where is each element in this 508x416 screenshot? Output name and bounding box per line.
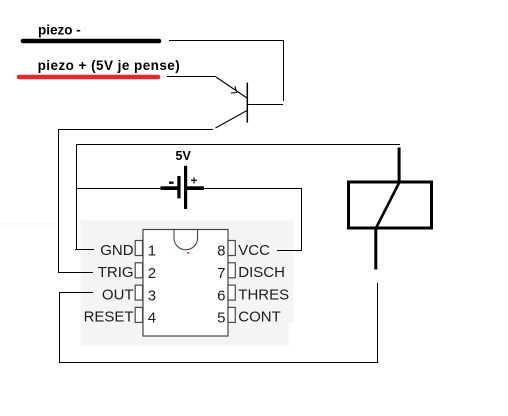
svg-text:piezo -: piezo - <box>38 23 81 38</box>
wire: TRIG stub <box>58 272 93 274</box>
IC U1 555 body <box>143 230 228 337</box>
base bar <box>246 83 248 123</box>
wire: bottom rail <box>59 362 379 364</box>
battery left thick lead <box>161 186 179 190</box>
faint eraser artifact left edge <box>0 222 57 227</box>
pin 1 box <box>135 241 142 256</box>
wire: piezo- to collector riser <box>169 40 284 42</box>
piezo negative lead (thick black bar) <box>23 39 159 44</box>
svg-text:CONT: CONT <box>238 309 280 326</box>
wire: GND stub <box>75 249 94 251</box>
wire: emitter to left rail <box>59 129 213 131</box>
svg-text:TRIG: TRIG <box>98 264 134 281</box>
wire: collector riser vertical <box>283 40 285 101</box>
svg-text:DISCH: DISCH <box>238 264 285 281</box>
IC U1 gray backdrop lower <box>81 323 289 346</box>
svg-text:+: + <box>191 174 198 188</box>
transistor Q1 <box>216 77 284 128</box>
pin 5 box <box>228 307 235 322</box>
emitter diagonal lead <box>216 111 248 129</box>
svg-text:6: 6 <box>217 287 225 304</box>
svg-text:5V: 5V <box>176 149 192 163</box>
relay body rectangle <box>349 182 432 228</box>
svg-text:GND: GND <box>100 242 134 259</box>
relay bottom thick lead <box>374 229 377 270</box>
piezo positive lead (thick red bar) <box>19 75 158 80</box>
svg-text:8: 8 <box>217 243 225 260</box>
relay top thick lead <box>398 148 401 183</box>
wire: battery left thin lead <box>76 188 162 190</box>
wire: VCC stub <box>277 250 302 252</box>
pin 7 box <box>228 263 235 278</box>
pin 6 box <box>228 285 235 300</box>
battery short plate (negative) <box>177 176 180 198</box>
svg-text:1: 1 <box>148 243 156 260</box>
relay K1 <box>349 148 432 270</box>
base lead diagonal <box>216 77 247 98</box>
svg-text:5: 5 <box>217 310 225 327</box>
wire: inner left vertical (top rail to GND) <box>76 144 78 250</box>
svg-text:OUT: OUT <box>102 286 134 303</box>
svg-text:THRES: THRES <box>238 286 289 303</box>
wire: bottom right vertical to relay <box>377 283 379 362</box>
IC U1 gray backdrop upper <box>81 221 294 324</box>
red dot below notch <box>187 252 189 254</box>
wire: top rail to relay <box>76 144 400 146</box>
pin 4 box <box>135 307 142 322</box>
pin 8 box <box>228 241 235 256</box>
pin 3 box <box>135 285 142 300</box>
svg-text:piezo + (5V je pense): piezo + (5V je pense) <box>38 58 181 73</box>
wire: VCC riser vertical <box>301 188 303 251</box>
wire: bottom left vertical (OUT down) <box>59 292 61 363</box>
wire: piezo+ to transistor base <box>167 76 216 78</box>
battery right thick lead <box>187 186 204 190</box>
svg-text:7: 7 <box>217 265 225 282</box>
svg-text:VCC: VCC <box>238 242 270 259</box>
wire: OUT stub <box>59 292 93 294</box>
svg-text:RESET: RESET <box>84 309 134 326</box>
wire: left rail vertical (emitter down to TRIG) <box>58 129 60 273</box>
collector horizontal lead <box>247 104 283 106</box>
battery BT1 5V <box>76 149 302 209</box>
IC notch <box>174 230 198 250</box>
svg-text:4: 4 <box>148 310 156 327</box>
arrowhead on base lead <box>231 86 238 93</box>
label - <box>169 182 174 184</box>
relay diagonal actuator <box>376 182 400 228</box>
svg-text:2: 2 <box>148 265 156 282</box>
wire: battery right thin lead <box>204 188 302 190</box>
svg-text:3: 3 <box>148 287 156 304</box>
pin 2 box <box>135 263 142 278</box>
battery long plate (positive) <box>184 166 187 209</box>
